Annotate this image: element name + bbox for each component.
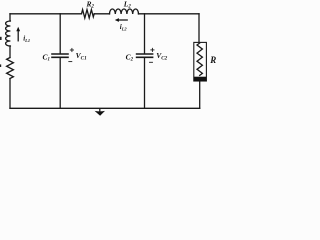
svg-text:VC2: VC2 xyxy=(156,51,167,62)
resistor R (boxed) xyxy=(194,42,207,81)
wire C2 branch lower xyxy=(144,58,146,108)
wire C2 branch upper xyxy=(144,14,146,54)
label L1 fragment at left edge xyxy=(0,37,2,40)
capacitor C2 xyxy=(137,54,153,57)
wire between R2 and L2 xyxy=(94,13,109,15)
svg-text:R: R xyxy=(209,55,216,65)
wire L2 to top-right corner xyxy=(139,13,200,15)
resistor R2 xyxy=(82,10,95,18)
svg-text:iL2: iL2 xyxy=(120,23,128,31)
label R1 fragment at left edge xyxy=(0,64,1,67)
inductor L1 xyxy=(6,21,11,46)
current arrow i_L2 xyxy=(115,18,127,22)
wire left side lower xyxy=(9,79,11,109)
ground xyxy=(95,109,105,116)
current arrow i_L1 xyxy=(16,27,20,41)
svg-text:VC1: VC1 xyxy=(76,51,87,62)
wire right side lower xyxy=(199,81,201,108)
wire left side upper xyxy=(9,14,11,21)
svg-text:C1: C1 xyxy=(43,52,50,62)
minus sign C2 xyxy=(150,61,153,63)
svg-text:R2: R2 xyxy=(86,0,95,9)
plus sign C1 xyxy=(70,48,73,51)
wire C1 branch upper xyxy=(59,14,61,54)
minus sign C1 xyxy=(69,61,72,63)
capacitor C1 xyxy=(52,54,68,57)
plus sign C2 xyxy=(151,48,154,51)
wire right side upper xyxy=(198,14,200,43)
wire between L1 and R1 xyxy=(9,46,11,58)
wire bottom xyxy=(10,107,200,109)
wire C1 branch lower xyxy=(59,58,61,108)
wire top-left segment xyxy=(10,13,82,15)
resistor R1 xyxy=(7,58,14,79)
svg-text:iL1: iL1 xyxy=(23,35,30,43)
svg-text:L2: L2 xyxy=(123,0,132,10)
inductor L2 xyxy=(110,9,139,14)
svg-text:C2: C2 xyxy=(126,53,134,63)
